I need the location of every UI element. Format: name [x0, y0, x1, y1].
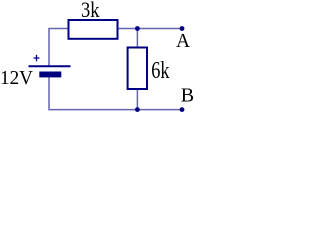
svg-text:3k: 3k: [81, 0, 100, 22]
svg-text:B: B: [181, 85, 194, 107]
svg-text:12V: 12V: [0, 67, 34, 89]
svg-text:6k: 6k: [151, 58, 169, 84]
svg-text:A: A: [176, 31, 190, 52]
